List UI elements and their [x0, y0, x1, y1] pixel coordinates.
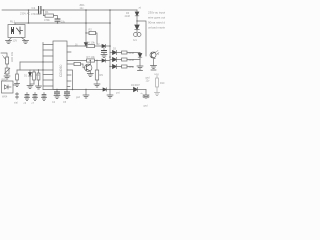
text block top right — [148, 11, 167, 30]
label R4 — [36, 73, 40, 77]
svg-text:R2: R2 — [89, 28, 93, 32]
diode D1 on x=86 — [84, 43, 87, 46]
label above ground x=146 — [141, 93, 144, 95]
ground under T2 — [151, 66, 157, 71]
relay contact symbol — [17, 27, 23, 34]
diode D4 row 2 — [110, 57, 122, 61]
label above x=86 — [80, 3, 86, 10]
wire IC right row B y=57 — [67, 60, 110, 62]
capacitor C4 below bus — [55, 89, 60, 96]
preset RV2 column x=17 — [16, 70, 19, 84]
wire jog to diode D7 — [127, 53, 140, 67]
svg-text:R9: R9 — [100, 73, 104, 77]
label mains text — [20, 12, 30, 16]
relay RL1 box — [8, 25, 25, 38]
wire IC right pin stubs — [67, 52, 71, 87]
capacitor C1 series dropper — [39, 7, 41, 14]
label row 2 — [129, 59, 135, 62]
diode D11 on bottom bus — [103, 88, 107, 91]
LED arrows on T2 — [156, 51, 160, 55]
label IC name vertical — [59, 64, 63, 77]
svg-text:R7 10k: R7 10k — [87, 55, 96, 59]
wire IC pin row y=62 — [20, 61, 53, 62]
LDR R3 — [6, 57, 9, 64]
ground cluster left — [27, 84, 34, 89]
label C1 — [32, 6, 36, 10]
label box top — [2, 78, 8, 82]
label C5 — [63, 101, 67, 104]
svg-text:onload maxim: onload maxim — [148, 26, 165, 30]
wire vertical x=86 — [85, 9, 87, 44]
component cluster below-left bus: crystal — [16, 93, 19, 100]
wire pin drop x=72.5 — [67, 70, 73, 90]
label bottom bus tiny — [116, 93, 121, 95]
svg-text:wire goes out: wire goes out — [148, 16, 165, 20]
svg-text:RL1: RL1 — [10, 20, 16, 24]
capacitor C9 drop at x=104 — [102, 48, 107, 55]
diode D3 row 1 — [110, 50, 122, 54]
label R2 — [89, 28, 93, 32]
label R9 — [100, 73, 104, 77]
resistor R4 vertical — [33, 70, 36, 84]
label below ground x=146 — [144, 105, 149, 108]
label D2 — [24, 74, 28, 78]
ground LDR chain — [4, 74, 10, 79]
ground relay left — [6, 41, 12, 44]
resistor R1 — [45, 14, 54, 17]
ground RV2 — [15, 84, 20, 87]
svg-text:12V: 12V — [13, 39, 18, 43]
label C6 — [24, 102, 27, 105]
label pin16 — [75, 45, 78, 47]
relay coil symbol — [12, 28, 14, 34]
wire bottom bus — [43, 89, 110, 91]
cap C7 bottom — [33, 93, 38, 101]
wire T1 emitter — [87, 71, 93, 77]
wire relay lead right — [22, 38, 26, 41]
ground bottom right — [143, 95, 149, 98]
resistor R7 row B — [87, 59, 95, 62]
wire bottom bus right extension — [110, 89, 134, 91]
label crystal — [14, 102, 18, 105]
preset VR1 — [5, 64, 10, 74]
capacitor C5 below bus — [65, 89, 70, 96]
label D8 — [131, 84, 140, 87]
resistor row 3 — [122, 65, 128, 68]
buzzer double circle — [134, 30, 142, 37]
svg-text:R1: R1 — [45, 10, 49, 14]
ground x=110 bottom — [107, 89, 113, 98]
diode D10 on row B — [102, 59, 106, 62]
svg-text:R6 10k: R6 10k — [87, 41, 96, 45]
diode inside box — [5, 85, 12, 89]
label relay value — [13, 39, 18, 43]
box sensor module — [2, 81, 14, 93]
IC U1 body — [53, 41, 67, 90]
svg-text:CD4060: CD4060 — [59, 64, 63, 77]
wire IC pin row y=70 — [17, 69, 53, 70]
label R10 — [160, 82, 165, 85]
svg-text:474/400: 474/400 — [31, 12, 41, 16]
wire vertical x=110 — [109, 9, 111, 89]
resistor row 2 — [122, 58, 128, 61]
wire relay lead left — [9, 38, 12, 41]
ground x=86 bottom — [83, 89, 89, 98]
transistor T2 blob — [150, 52, 156, 59]
label C7 — [32, 102, 35, 105]
ground R9 — [94, 84, 100, 87]
diode D7 vertical — [138, 54, 142, 67]
label R7 — [87, 55, 96, 59]
diode D2 on row A — [102, 44, 106, 47]
svg-text:1N4007: 1N4007 — [131, 84, 140, 87]
label bottom mid — [76, 96, 81, 99]
wire second bus — [15, 22, 110, 24]
resistor R8 base — [74, 62, 85, 67]
diode D6 vertical — [135, 12, 139, 21]
wire C2 to bus2 — [57, 21, 59, 24]
svg-text:BR1: BR1 — [2, 78, 8, 82]
svg-text:gnd: gnd — [144, 105, 149, 108]
svg-text:C1: C1 — [32, 6, 36, 10]
resistor R9 vertical — [95, 60, 98, 84]
wire base row y=62 — [67, 63, 74, 65]
wire T1 collector — [90, 60, 91, 65]
component cluster mid-left: diode D2 — [29, 70, 32, 84]
diode D5 row 3 — [109, 64, 121, 68]
wire top supply bus — [2, 9, 137, 11]
resistor R10 vertical right — [156, 76, 159, 93]
wire into relay box — [14, 23, 16, 25]
transistor T1 — [85, 64, 92, 71]
wire bus drop x=28.5 — [28, 10, 30, 24]
ground C5 — [64, 96, 70, 99]
cap C6 bottom — [25, 93, 30, 101]
label row 3 — [129, 66, 135, 69]
label R6 — [87, 41, 96, 45]
transistor arrow symbol — [135, 21, 139, 30]
resistor R5 vertical — [37, 69, 40, 84]
wire down to ground x=146 — [145, 90, 147, 96]
wire LDR feed — [1, 53, 7, 57]
svg-text:R4: R4 — [36, 73, 40, 77]
label right of R6 — [97, 43, 101, 46]
label D6 — [125, 8, 142, 19]
label vertical sensor text — [10, 51, 14, 62]
svg-text:bz1: bz1 — [133, 39, 138, 42]
label box bottom — [2, 95, 8, 99]
svg-text:90ma rated dc: 90ma rated dc — [148, 21, 165, 25]
label C2 value — [61, 21, 66, 24]
ground relay right — [23, 41, 29, 44]
label RL1 — [10, 20, 16, 24]
wire box stub — [13, 84, 17, 86]
label C4 — [52, 101, 56, 104]
ground right column — [155, 93, 160, 96]
wire IC right row A y=46 — [67, 45, 110, 47]
label far right small — [154, 73, 160, 76]
label T2 — [157, 54, 160, 56]
label R1 value — [44, 18, 50, 22]
cap C8 bottom — [42, 93, 47, 101]
ground under C9 — [101, 55, 107, 58]
wire branch to x=146 — [136, 20, 146, 56]
ground under D7 — [137, 66, 143, 71]
resistor row 1 — [122, 51, 128, 54]
wire IC left pin stubs — [43, 45, 53, 87]
wire T2 emitter down — [153, 58, 155, 66]
svg-text:4148: 4148 — [125, 15, 131, 18]
LDR arrows — [3, 56, 7, 61]
label buzzer — [133, 39, 138, 42]
wire top-right branch — [136, 10, 138, 12]
wire R1 to C2 — [44, 16, 58, 19]
svg-text:470k: 470k — [44, 18, 50, 22]
wire vertical x=140 rows — [139, 53, 141, 54]
label between grounds — [146, 77, 151, 83]
ground C4 — [54, 96, 60, 99]
label C1 value — [31, 12, 41, 16]
svg-text:R10: R10 — [160, 82, 165, 85]
wire corner x=20 — [19, 62, 21, 70]
svg-text:LDR 10k: LDR 10k — [10, 51, 14, 62]
node junction top bus at x=28.5 — [28, 9, 30, 11]
diode D8 bottom — [134, 87, 147, 91]
svg-text:D1: D1 — [24, 74, 28, 78]
svg-text:230v ac input: 230v ac input — [148, 11, 165, 15]
capacitor C2 electrolytic — [55, 19, 60, 21]
wire IC left pin bus — [42, 43, 44, 90]
label R1 — [45, 10, 49, 14]
resistor R6 row A — [87, 44, 95, 47]
label row 1 — [113, 49, 135, 55]
svg-text:W04: W04 — [2, 95, 8, 99]
svg-text:xtal: xtal — [14, 102, 18, 105]
resistor R2 stub — [86, 31, 97, 44]
svg-text:gnd: gnd — [76, 96, 81, 99]
wire drop to R1 — [43, 9, 44, 15]
ground cluster right — [36, 84, 42, 89]
